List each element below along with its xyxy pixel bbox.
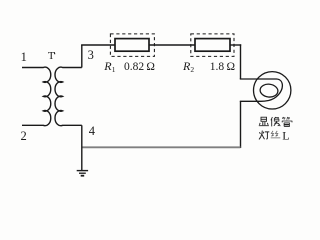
wire top from node3 to R1 (81, 44, 115, 46)
ground symbol (77, 171, 88, 176)
char 管 (282, 117, 292, 126)
wire R1 to R2 (149, 44, 195, 46)
svg-text:T: T (48, 50, 55, 62)
transformer T secondary winding (55, 67, 82, 126)
lamp filament inner loop (259, 83, 278, 98)
wire node4 vertical down to ground (81, 125, 83, 170)
resistor R2 body (195, 39, 230, 52)
char 丝 (faint in scan) (271, 131, 281, 138)
svg-text:1: 1 (21, 50, 27, 64)
label 灯丝L (hand-drawn glyphs) (259, 131, 280, 140)
wire lamp bottom to bottom rail (240, 101, 242, 148)
svg-text:1.8 Ω: 1.8 Ω (210, 61, 235, 73)
char 灯 (259, 131, 269, 140)
svg-text:1: 1 (112, 65, 116, 74)
svg-text:3: 3 (88, 48, 94, 62)
resistor R1 body (115, 39, 149, 52)
svg-text:L: L (282, 129, 289, 143)
resistor R2 dashed box (191, 34, 234, 57)
char 显 (259, 117, 269, 126)
wire node3 vertical (81, 45, 83, 68)
svg-text:0.82 Ω: 0.82 Ω (124, 61, 155, 73)
resistor R1 dashed box (110, 34, 154, 57)
svg-text:4: 4 (89, 124, 96, 138)
transformer T primary winding (22, 67, 51, 126)
CRT filament lamp L outer circle (254, 72, 291, 109)
wire R2 to corner (230, 44, 241, 46)
label 显像管 (hand-drawn glyphs) (259, 117, 293, 126)
char 像 (271, 117, 280, 126)
lamp filament hook lead (top lead, right bend, bottom lead) (240, 79, 283, 101)
svg-text:2: 2 (190, 65, 194, 74)
svg-text:2: 2 (21, 129, 27, 143)
bottom wire (gray) (82, 146, 241, 148)
wire right vertical to lamp top lead (240, 44, 242, 79)
